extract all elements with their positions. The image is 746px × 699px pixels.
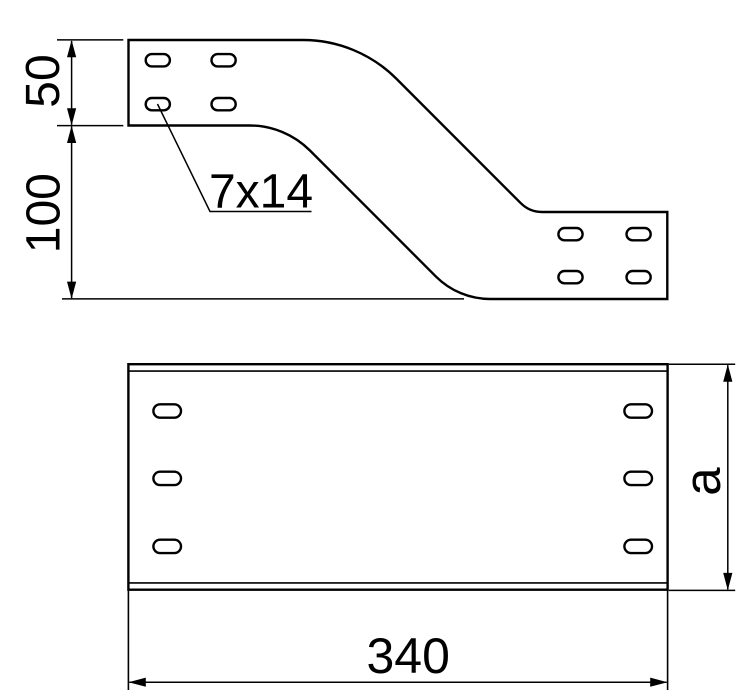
dimension 340: extension line left	[127, 590, 129, 690]
top flange line	[128, 370, 667, 372]
dimension 100: extension line bottom (projection of lower flange)	[62, 298, 464, 300]
dimension a: arrow down	[723, 573, 732, 590]
slot top-left plate upper-left	[146, 54, 170, 66]
slot plan left bottom	[153, 540, 181, 553]
slot top-left plate lower-left	[146, 98, 170, 110]
slot top-left plate upper-right	[212, 54, 236, 66]
profile outline	[129, 40, 668, 299]
dimension 340: arrow left	[129, 678, 146, 687]
slot right plate lower-right	[627, 271, 651, 283]
svg-text:7x14: 7x14	[209, 166, 313, 219]
dimension 50: extension line top	[57, 39, 123, 41]
dimension 50/100: shared extension line middle	[57, 125, 123, 127]
slot plan right middle	[624, 472, 652, 485]
svg-text:a: a	[674, 467, 731, 496]
slot plan right bottom	[624, 540, 652, 553]
dimension 340: extension line right	[667, 590, 669, 690]
slot plan left top	[153, 404, 181, 417]
dimension 100: dimension line	[71, 127, 73, 299]
svg-text:100: 100	[17, 173, 70, 253]
dimension 50: arrow up	[67, 40, 76, 57]
slot top-left plate lower-right	[212, 98, 236, 110]
dimension 100: arrow down	[67, 282, 76, 299]
dimension 340: dimension line	[129, 681, 666, 683]
slot plan left middle	[153, 472, 181, 485]
dimension 340: arrow right	[650, 678, 667, 687]
slot plan right top	[624, 404, 652, 417]
svg-text:50: 50	[17, 54, 70, 107]
slot right plate lower-left	[558, 271, 582, 283]
slot right plate upper-left	[558, 228, 582, 240]
leader line for slot size	[158, 104, 312, 212]
dimension a: dimension line	[727, 365, 729, 589]
dimension 50: arrow down	[67, 108, 76, 125]
plate outline	[128, 364, 667, 590]
slot right plate upper-right	[627, 228, 651, 240]
svg-text:340: 340	[366, 628, 449, 684]
bottom flange line	[128, 582, 667, 584]
dimension a: extension line bottom	[669, 589, 735, 591]
dimension a: extension line top	[669, 363, 735, 365]
dimension 100: arrow up	[67, 126, 76, 143]
dimension a: arrow up	[723, 364, 732, 381]
dimension 50: dimension line	[71, 41, 73, 125]
